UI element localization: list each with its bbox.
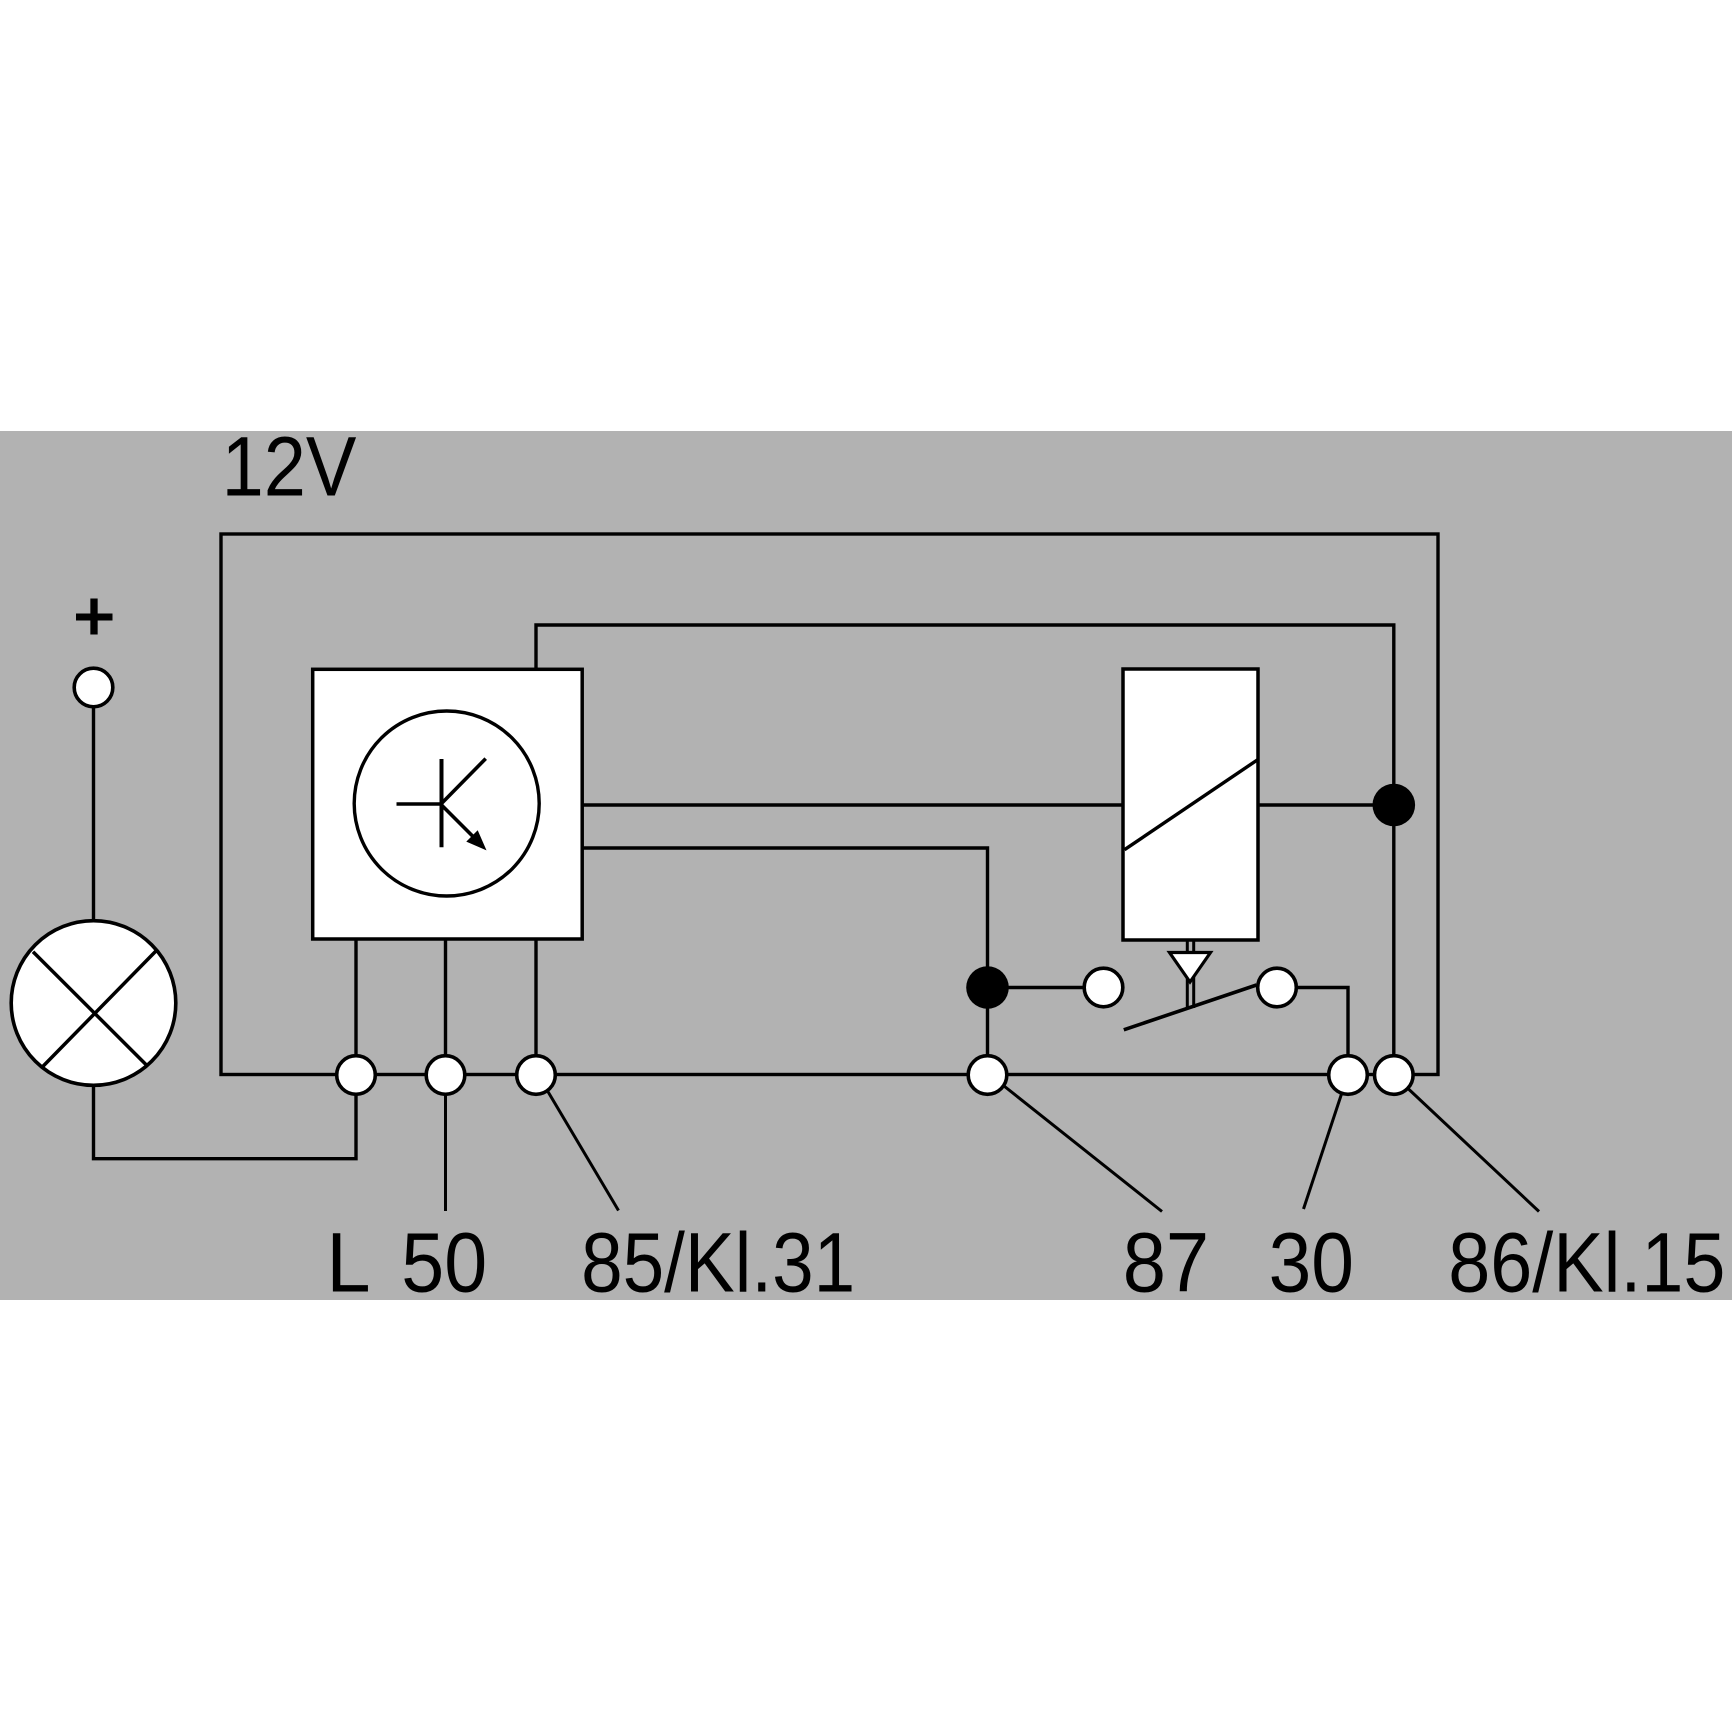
junction node (solder dot) at control output / 87 branch (966, 966, 1009, 1009)
wire: right switch contact to terminal 30 (1277, 988, 1348, 1076)
lamp H1 (indicator light, circle with X) (11, 921, 176, 1086)
transistor Q1 base bar (440, 759, 444, 847)
wire: control unit pin to terminal 85/Kl.31 (534, 939, 537, 1075)
wire: from + terminal down to lamp (92, 687, 95, 922)
wire: junction to left switch contact (988, 986, 1104, 989)
svg-text:85/Kl.31: 85/Kl.31 (581, 1216, 855, 1310)
wire: relay coil right side to node on 86 rail (1258, 803, 1394, 806)
terminal circle: L (337, 1056, 376, 1095)
control unit U1 (timer electronics box) (313, 669, 583, 939)
wire: inner rail from control unit top pin to relay junction (86/Kl.15 feed) (536, 625, 1394, 1075)
svg-text:87: 87 (1123, 1216, 1209, 1310)
leader line for terminal 50 (444, 1095, 447, 1211)
transistor Q1 base lead (397, 802, 442, 806)
terminal circle: 85/Kl.31 (517, 1056, 556, 1095)
terminal circle: 30 (1329, 1056, 1368, 1095)
wire: control unit pin to terminal 50 (444, 939, 447, 1075)
svg-text:L: L (326, 1216, 370, 1310)
gray schematic panel (0, 431, 1732, 1300)
wire: control unit output to relay coil (582, 803, 1123, 806)
svg-text:50: 50 (401, 1216, 487, 1310)
terminal circle: battery + (74, 668, 113, 707)
relay K1 coil box (1123, 669, 1258, 940)
wire: control unit output to switch junction (node 87 branch) (582, 848, 988, 988)
relay K1 coil diagonal (1125, 760, 1258, 850)
junction node (solder dot) on 86/Kl.15 rail at relay coil (1373, 784, 1416, 827)
battery + symbol (76, 614, 113, 621)
leader line for terminal 85/Kl.31 (547, 1090, 619, 1211)
wire: junction down to terminal 87 (986, 988, 989, 1076)
svg-text:86/Kl.15: 86/Kl.15 (1448, 1216, 1725, 1310)
wire: 12V supply bus (outer rectangle loop, +12V rail / bottom bus) (221, 534, 1438, 1075)
wire: control unit pin to terminal L (354, 939, 357, 1075)
leader line for terminal 86/Kl.15 (1409, 1089, 1540, 1212)
leader line for terminal 30 (1304, 1094, 1342, 1209)
relay actuator arrow (hollow triangle) (1170, 953, 1211, 983)
svg-text:30: 30 (1269, 1216, 1354, 1310)
svg-text:12V: 12V (222, 420, 357, 514)
terminal circle: 87 (968, 1056, 1007, 1095)
switch contact circle right (1258, 968, 1297, 1007)
relay actuator double line (1186, 940, 1189, 1008)
switch S1 lever (relay contact) (1124, 985, 1257, 1030)
wire: from lamp bottom to terminal L (94, 1075, 357, 1159)
switch contact circle left (1084, 968, 1123, 1007)
transistor Q1 collector lead (442, 759, 486, 804)
transistor symbol circle inside control unit (354, 711, 539, 896)
terminal circle: 86/Kl.15 (1375, 1056, 1414, 1095)
transistor Q1 emitter lead with arrow (442, 805, 476, 839)
leader line for terminal 87 (1004, 1086, 1162, 1212)
terminal circle: 50 (426, 1056, 465, 1095)
